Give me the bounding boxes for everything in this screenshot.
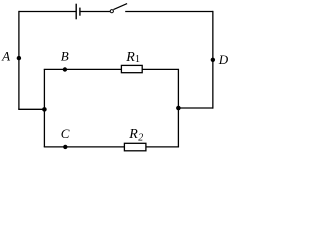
- wire outer-right vertical: [212, 11, 214, 109]
- wire right connector to junction: [178, 107, 212, 109]
- wire inner-right vertical: [177, 69, 179, 146]
- switch S lever (open): [113, 4, 127, 10]
- wire inner-left vertical: [43, 69, 45, 146]
- svg-text:C: C: [61, 126, 70, 141]
- node A junction dot: [17, 56, 21, 60]
- wire battery to switch: [81, 11, 111, 13]
- svg-text:D: D: [218, 52, 229, 67]
- svg-text:2: 2: [138, 133, 143, 144]
- node C junction dot: [63, 145, 67, 149]
- left junction dot: [42, 107, 47, 112]
- svg-text:R: R: [128, 127, 138, 142]
- resistor R2 box: [124, 143, 145, 151]
- battery (cell) short plate: [79, 8, 81, 16]
- wire switch to top-right corner: [125, 11, 213, 13]
- wire bottom branch right segment: [146, 146, 179, 148]
- wire left connector to junction: [18, 108, 44, 110]
- svg-text:B: B: [61, 48, 69, 63]
- node D junction dot: [211, 58, 215, 62]
- node B junction dot: [63, 67, 67, 71]
- wire outer-left vertical: [18, 11, 20, 109]
- switch S pivot circle: [110, 10, 113, 13]
- battery (cell) long plate: [75, 4, 77, 20]
- wire middle branch right segment: [143, 68, 180, 70]
- wire middle branch left segment: [44, 68, 122, 70]
- svg-text:A: A: [1, 49, 10, 64]
- svg-text:R: R: [125, 50, 135, 65]
- wire top-left segment: [19, 11, 76, 13]
- right junction dot: [176, 106, 181, 111]
- resistor R1 box: [121, 65, 142, 72]
- wire bottom branch left segment: [44, 146, 125, 148]
- svg-text:1: 1: [135, 54, 140, 65]
